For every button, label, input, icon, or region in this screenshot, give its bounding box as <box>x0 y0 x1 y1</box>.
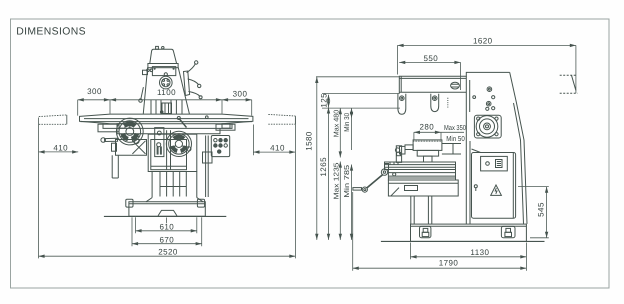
warning triangle <box>491 185 502 195</box>
motor cover (top hat) <box>150 49 177 63</box>
dim 1620 <box>398 44 576 46</box>
ext horizontals at left <box>316 77 400 108</box>
dim Max480 <box>339 108 341 157</box>
left table drive housing <box>98 124 119 132</box>
feed gearbox below left wheel <box>116 140 147 156</box>
dim 1100 <box>110 99 222 101</box>
ext for 1130/1790 <box>353 192 527 271</box>
fixture on table <box>396 146 401 163</box>
svg-text:2520: 2520 <box>158 248 178 257</box>
svg-text:125: 125 <box>319 93 328 108</box>
dim 410 right <box>253 151 295 153</box>
dim 1265 <box>328 107 330 240</box>
column face small circles <box>487 87 492 92</box>
dim 280 + leader <box>414 131 441 133</box>
svg-text:550: 550 <box>423 54 438 63</box>
center pedestal bump <box>158 210 177 216</box>
knee <box>388 180 458 196</box>
dim 1130 <box>411 256 527 258</box>
quill rectangle <box>162 103 172 114</box>
table slab <box>80 114 253 124</box>
small pulley circle above boss <box>164 73 167 76</box>
column front edge <box>466 76 470 224</box>
base lugs <box>126 199 133 207</box>
dim 300 right <box>222 99 252 101</box>
dim 125 <box>328 95 330 108</box>
base flare <box>146 198 203 202</box>
floor line <box>381 240 545 242</box>
left view dim labels <box>53 87 285 257</box>
center post with switch <box>155 128 164 157</box>
svg-text:1265: 1265 <box>319 157 328 177</box>
oiler <box>474 185 477 188</box>
left handwheel <box>116 118 143 145</box>
right view dim labels <box>305 37 546 268</box>
knee support column <box>411 196 432 224</box>
left lever <box>141 88 144 100</box>
arbor support ear 1 <box>398 94 406 115</box>
foot right <box>501 226 515 237</box>
left travel dashed wedge <box>39 115 67 124</box>
dim 1790 <box>353 267 527 269</box>
svg-text:Min 30: Min 30 <box>343 113 351 132</box>
dim 610 <box>136 230 197 232</box>
dim Min30 <box>351 108 353 118</box>
left crank handle <box>105 138 118 141</box>
svg-text:Min 50: Min 50 <box>446 134 465 143</box>
head body trapezoid <box>143 68 189 114</box>
motor mount boss <box>474 115 501 138</box>
floor line <box>104 215 226 217</box>
dim 2520 <box>39 255 296 257</box>
svg-text:Max 350: Max 350 <box>444 123 466 132</box>
svg-text:Max 1235: Max 1235 <box>334 162 341 199</box>
center handwheel <box>166 131 191 156</box>
base body <box>129 202 205 217</box>
saddle bands under table <box>103 124 232 129</box>
saddle <box>388 170 455 181</box>
svg-text:545: 545 <box>536 202 545 217</box>
foot left <box>420 226 431 237</box>
svg-text:300: 300 <box>87 87 102 96</box>
two small circles left of plate <box>147 69 150 72</box>
svg-text:300: 300 <box>233 90 248 99</box>
front plate with bolts <box>152 67 175 76</box>
dim 410 left <box>39 151 79 153</box>
panel arm <box>206 136 209 198</box>
svg-text:1580: 1580 <box>305 131 314 151</box>
head upper band <box>148 64 178 68</box>
svg-text:1130: 1130 <box>470 248 489 257</box>
base <box>411 224 527 241</box>
speed dial boss <box>160 76 173 89</box>
svg-text:DIMENSIONS: DIMENSIONS <box>16 27 86 38</box>
table slab <box>385 162 456 170</box>
ext verticals for 1620/550 <box>398 45 576 93</box>
door panel <box>472 153 516 219</box>
dim 550 <box>399 61 460 63</box>
arbor support ear 2 <box>431 94 439 112</box>
dotted section strip <box>447 98 449 108</box>
control panel <box>211 136 229 157</box>
small knobs on cover top <box>156 46 159 49</box>
dim 670 <box>132 243 202 245</box>
svg-text:1100: 1100 <box>157 88 176 97</box>
ext verticals far left/right <box>39 118 296 259</box>
head lower vertical lines to table <box>151 100 182 113</box>
dim Min785 <box>351 165 353 240</box>
label plate <box>481 156 508 171</box>
svg-text:670: 670 <box>159 235 174 244</box>
wall bracket top right <box>560 74 576 76</box>
spindle nose parts left <box>405 145 413 150</box>
right levers <box>184 71 190 96</box>
dim Max1235 <box>339 162 341 240</box>
ram / overarm <box>399 72 509 93</box>
ext lines 610/670 <box>132 217 202 246</box>
svg-text:Max 480: Max 480 <box>334 110 341 138</box>
column back edge <box>510 72 527 224</box>
dim 545 <box>518 187 549 238</box>
svg-text:1790: 1790 <box>439 258 459 267</box>
right end bracket <box>216 124 235 130</box>
right travel dashed wedge <box>268 114 295 124</box>
dim 300 left <box>78 99 110 101</box>
svg-text:280: 280 <box>419 123 434 132</box>
svg-text:1620: 1620 <box>473 37 493 46</box>
svg-text:Min 785: Min 785 <box>343 165 351 198</box>
svg-text:410: 410 <box>53 143 68 152</box>
badge (logo oval) <box>451 82 460 89</box>
knee box <box>148 134 197 171</box>
spindle head block <box>413 140 442 151</box>
svg-text:410: 410 <box>270 143 285 152</box>
crank <box>381 169 387 175</box>
column below knee <box>152 172 197 198</box>
extension lines top dims <box>78 100 252 116</box>
svg-text:610: 610 <box>159 223 174 232</box>
dim 1580 <box>316 77 318 240</box>
